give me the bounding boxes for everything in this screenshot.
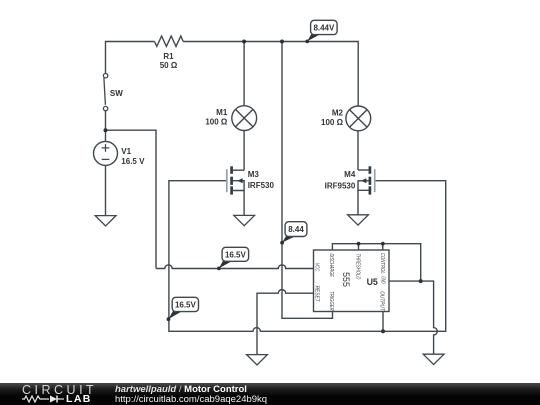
junction CONTROL [381,242,385,246]
resistor R1 [155,36,184,46]
wire OUTPUT pin [382,312,384,332]
wire M3 source to ground [243,191,245,216]
svg-text:GND: GND [380,276,386,284]
lamp M2 [346,106,371,131]
wire VCC with hops over gate bus and 8.44V net [156,265,314,269]
ground (RESET net) [247,355,268,365]
svg-text:CONTROL: CONTROL [379,253,385,274]
svg-text:100 Ω: 100 Ω [321,118,344,127]
wire battery node right and down to VCC corner [106,130,157,268]
voltage source V1 [94,141,118,165]
transistor M3 [227,166,244,194]
wire GND pin to ground with hop over bottom bus [389,281,437,354]
svg-text:M4: M4 [344,170,356,179]
junction OUTPUT bus [381,329,385,333]
switch SW [103,74,107,111]
svg-text:VCC: VCC [314,263,320,272]
transistor M4 [358,166,375,194]
wire switch top to R1 left [106,42,155,74]
ground (U5 gnd) [423,354,444,364]
wire switch bottom to battery node [105,111,107,141]
svg-text:THRESHOLD: THRESHOLD [355,253,361,279]
wire gate bus: M3 gate, bottom bus with hop, up to M4 gate [169,181,446,332]
svg-text:U5: U5 [367,277,378,287]
svg-text:SW: SW [110,89,123,98]
voltage label 16.5V (VCC wire) [217,247,249,270]
svg-text:50 Ω: 50 Ω [160,61,178,70]
CircuitLab logo [22,383,97,397]
voltage label 8.44V [305,20,337,43]
ground (battery) [95,216,116,226]
svg-text:M2: M2 [332,109,344,118]
svg-text:IRF530: IRF530 [248,181,275,190]
junction THRESHOLD [357,242,361,246]
svg-text:100 Ω: 100 Ω [205,118,228,127]
wire M4 source to ground [357,190,359,215]
IC U5 (555 timer) body [314,250,390,312]
svg-text:8.44V: 8.44V [313,23,335,32]
junction GND bus [419,279,423,283]
wire R1 to M2 branch corner [183,42,358,107]
footer bar [0,383,540,405]
svg-text:16.5V: 16.5V [225,250,247,259]
junction node C (battery top) [104,128,108,132]
lamp M1 [232,106,257,131]
svg-text:V1: V1 [121,147,131,156]
wire M1 branch [243,42,245,106]
svg-text:555: 555 [340,272,351,287]
junction node A (M1 branch) [242,40,246,44]
wire V1 minus to ground [105,165,107,215]
svg-text:16.5 V: 16.5 V [121,157,145,166]
wire DISCHARGE to top bus to GND bus corner [332,244,420,281]
ground (M4) [348,215,369,225]
voltage label 16.5V (gate bus) [167,297,199,321]
svg-text:OUTPUT: OUTPUT [379,291,385,311]
wire M2 to M4 [357,131,359,170]
wire 8.44V net: node B down to TRIGGER [282,42,333,319]
svg-text:DISCHARGE: DISCHARGE [328,253,334,277]
wire M1 to M3 drain [243,131,245,171]
wire CONTROL pin [382,244,384,250]
svg-text:M3: M3 [248,170,260,179]
svg-text:8.44: 8.44 [288,225,304,234]
svg-text:TRIGGER: TRIGGER [328,291,334,311]
wire RESET with hop over 8.44V net [257,290,314,355]
svg-text:R1: R1 [163,52,174,61]
voltage label 8.44 [280,222,307,245]
svg-text:16.5V: 16.5V [175,300,197,309]
ground (M3) [234,215,255,225]
footer text [115,385,267,405]
wire THRESHOLD pin [358,244,360,250]
svg-text:IRF9530: IRF9530 [325,182,356,191]
svg-text:RESET: RESET [314,286,320,303]
junction node B (8.44V net) [280,40,284,44]
svg-text:M1: M1 [216,108,228,117]
